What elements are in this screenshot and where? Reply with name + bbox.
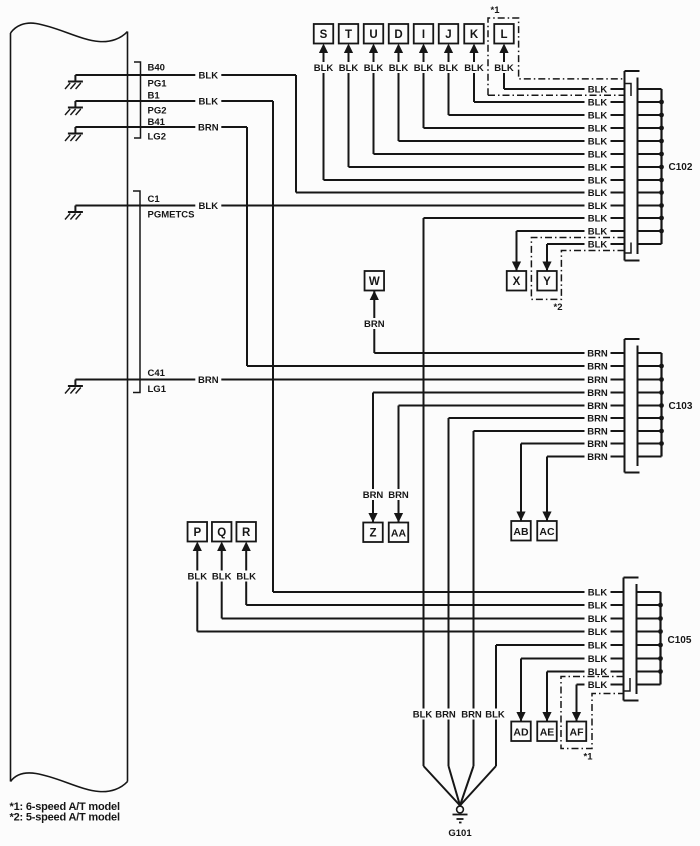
svg-text:C1: C1: [148, 194, 161, 205]
svg-text:BLK: BLK: [588, 627, 608, 638]
svg-text:LG1: LG1: [148, 384, 167, 395]
svg-text:Z: Z: [369, 527, 376, 539]
svg-text:BRN: BRN: [435, 710, 456, 721]
svg-text:BLK: BLK: [588, 85, 608, 96]
svg-text:LG2: LG2: [148, 132, 166, 143]
svg-text:S: S: [320, 29, 328, 41]
svg-text:AB: AB: [513, 526, 529, 538]
svg-text:BLK: BLK: [588, 240, 608, 251]
svg-text:BRN: BRN: [587, 439, 608, 450]
svg-text:U: U: [369, 29, 377, 41]
svg-text:B1: B1: [148, 91, 161, 102]
svg-text:C102: C102: [669, 162, 693, 173]
svg-text:BLK: BLK: [364, 63, 384, 74]
svg-text:B41: B41: [148, 117, 166, 128]
svg-text:Q: Q: [217, 527, 226, 539]
svg-text:C103: C103: [669, 401, 693, 412]
svg-text:BLK: BLK: [188, 572, 208, 583]
svg-text:BLK: BLK: [199, 71, 219, 82]
svg-text:BRN: BRN: [587, 452, 608, 463]
svg-text:BLK: BLK: [199, 97, 219, 108]
svg-text:BLK: BLK: [588, 98, 608, 109]
svg-text:AE: AE: [540, 726, 555, 738]
svg-text:BRN: BRN: [388, 490, 409, 501]
svg-text:BLK: BLK: [339, 63, 359, 74]
svg-text:BLK: BLK: [236, 572, 256, 583]
svg-text:BLK: BLK: [439, 63, 459, 74]
svg-text:BLK: BLK: [413, 710, 433, 721]
svg-text:*2: 5-speed A/T model: *2: 5-speed A/T model: [10, 812, 120, 824]
svg-text:PGMETCS: PGMETCS: [148, 210, 195, 221]
svg-text:G101: G101: [448, 828, 472, 839]
svg-text:L: L: [500, 29, 507, 41]
svg-text:BLK: BLK: [588, 227, 608, 238]
svg-text:BLK: BLK: [588, 654, 608, 665]
svg-text:BLK: BLK: [588, 588, 608, 599]
svg-text:BRN: BRN: [363, 490, 384, 501]
svg-text:BRN: BRN: [587, 349, 608, 360]
svg-text:BLK: BLK: [588, 614, 608, 625]
svg-text:BLK: BLK: [588, 601, 608, 612]
svg-text:C105: C105: [668, 635, 692, 646]
svg-text:BLK: BLK: [464, 63, 484, 74]
svg-text:I: I: [422, 29, 425, 41]
svg-text:BLK: BLK: [485, 710, 505, 721]
svg-text:BRN: BRN: [198, 123, 219, 134]
svg-text:BRN: BRN: [587, 414, 608, 425]
svg-text:*2: *2: [554, 302, 563, 313]
svg-text:BRN: BRN: [461, 710, 482, 721]
svg-text:R: R: [242, 527, 251, 539]
svg-text:AC: AC: [539, 526, 555, 538]
svg-text:X: X: [513, 276, 521, 288]
svg-text:BLK: BLK: [588, 111, 608, 122]
svg-text:BLK: BLK: [588, 150, 608, 161]
svg-text:PG2: PG2: [148, 106, 167, 117]
svg-text:BRN: BRN: [587, 401, 608, 412]
svg-text:AA: AA: [391, 527, 407, 539]
svg-text:PG1: PG1: [148, 79, 168, 90]
svg-text:BRN: BRN: [587, 375, 608, 386]
svg-text:BLK: BLK: [588, 163, 608, 174]
svg-text:BLK: BLK: [212, 572, 232, 583]
svg-text:BLK: BLK: [389, 63, 409, 74]
svg-text:C41: C41: [148, 368, 166, 379]
svg-text:Y: Y: [543, 276, 551, 288]
svg-text:BLK: BLK: [588, 124, 608, 135]
svg-text:D: D: [394, 29, 402, 41]
svg-text:BLK: BLK: [588, 176, 608, 187]
svg-text:BRN: BRN: [587, 388, 608, 399]
svg-text:BLK: BLK: [414, 63, 434, 74]
svg-text:AF: AF: [570, 726, 585, 738]
svg-text:P: P: [193, 527, 201, 539]
svg-text:BRN: BRN: [587, 427, 608, 438]
svg-text:T: T: [345, 29, 352, 41]
svg-text:BLK: BLK: [588, 137, 608, 148]
svg-text:*1: *1: [491, 5, 501, 16]
svg-text:BRN: BRN: [198, 375, 219, 386]
svg-text:BLK: BLK: [494, 63, 514, 74]
svg-text:W: W: [369, 276, 380, 288]
svg-text:*1: *1: [584, 752, 594, 763]
svg-text:J: J: [445, 29, 451, 41]
svg-text:AD: AD: [513, 726, 529, 738]
svg-text:BLK: BLK: [588, 214, 608, 225]
svg-text:BLK: BLK: [588, 680, 608, 691]
svg-text:B40: B40: [148, 63, 165, 74]
svg-text:BLK: BLK: [199, 201, 219, 212]
svg-text:BLK: BLK: [588, 641, 608, 652]
svg-text:BLK: BLK: [588, 201, 608, 212]
svg-text:BLK: BLK: [314, 63, 334, 74]
svg-text:BRN: BRN: [364, 319, 385, 330]
svg-text:K: K: [470, 29, 479, 41]
svg-text:BRN: BRN: [587, 362, 608, 373]
svg-text:BLK: BLK: [588, 188, 608, 199]
